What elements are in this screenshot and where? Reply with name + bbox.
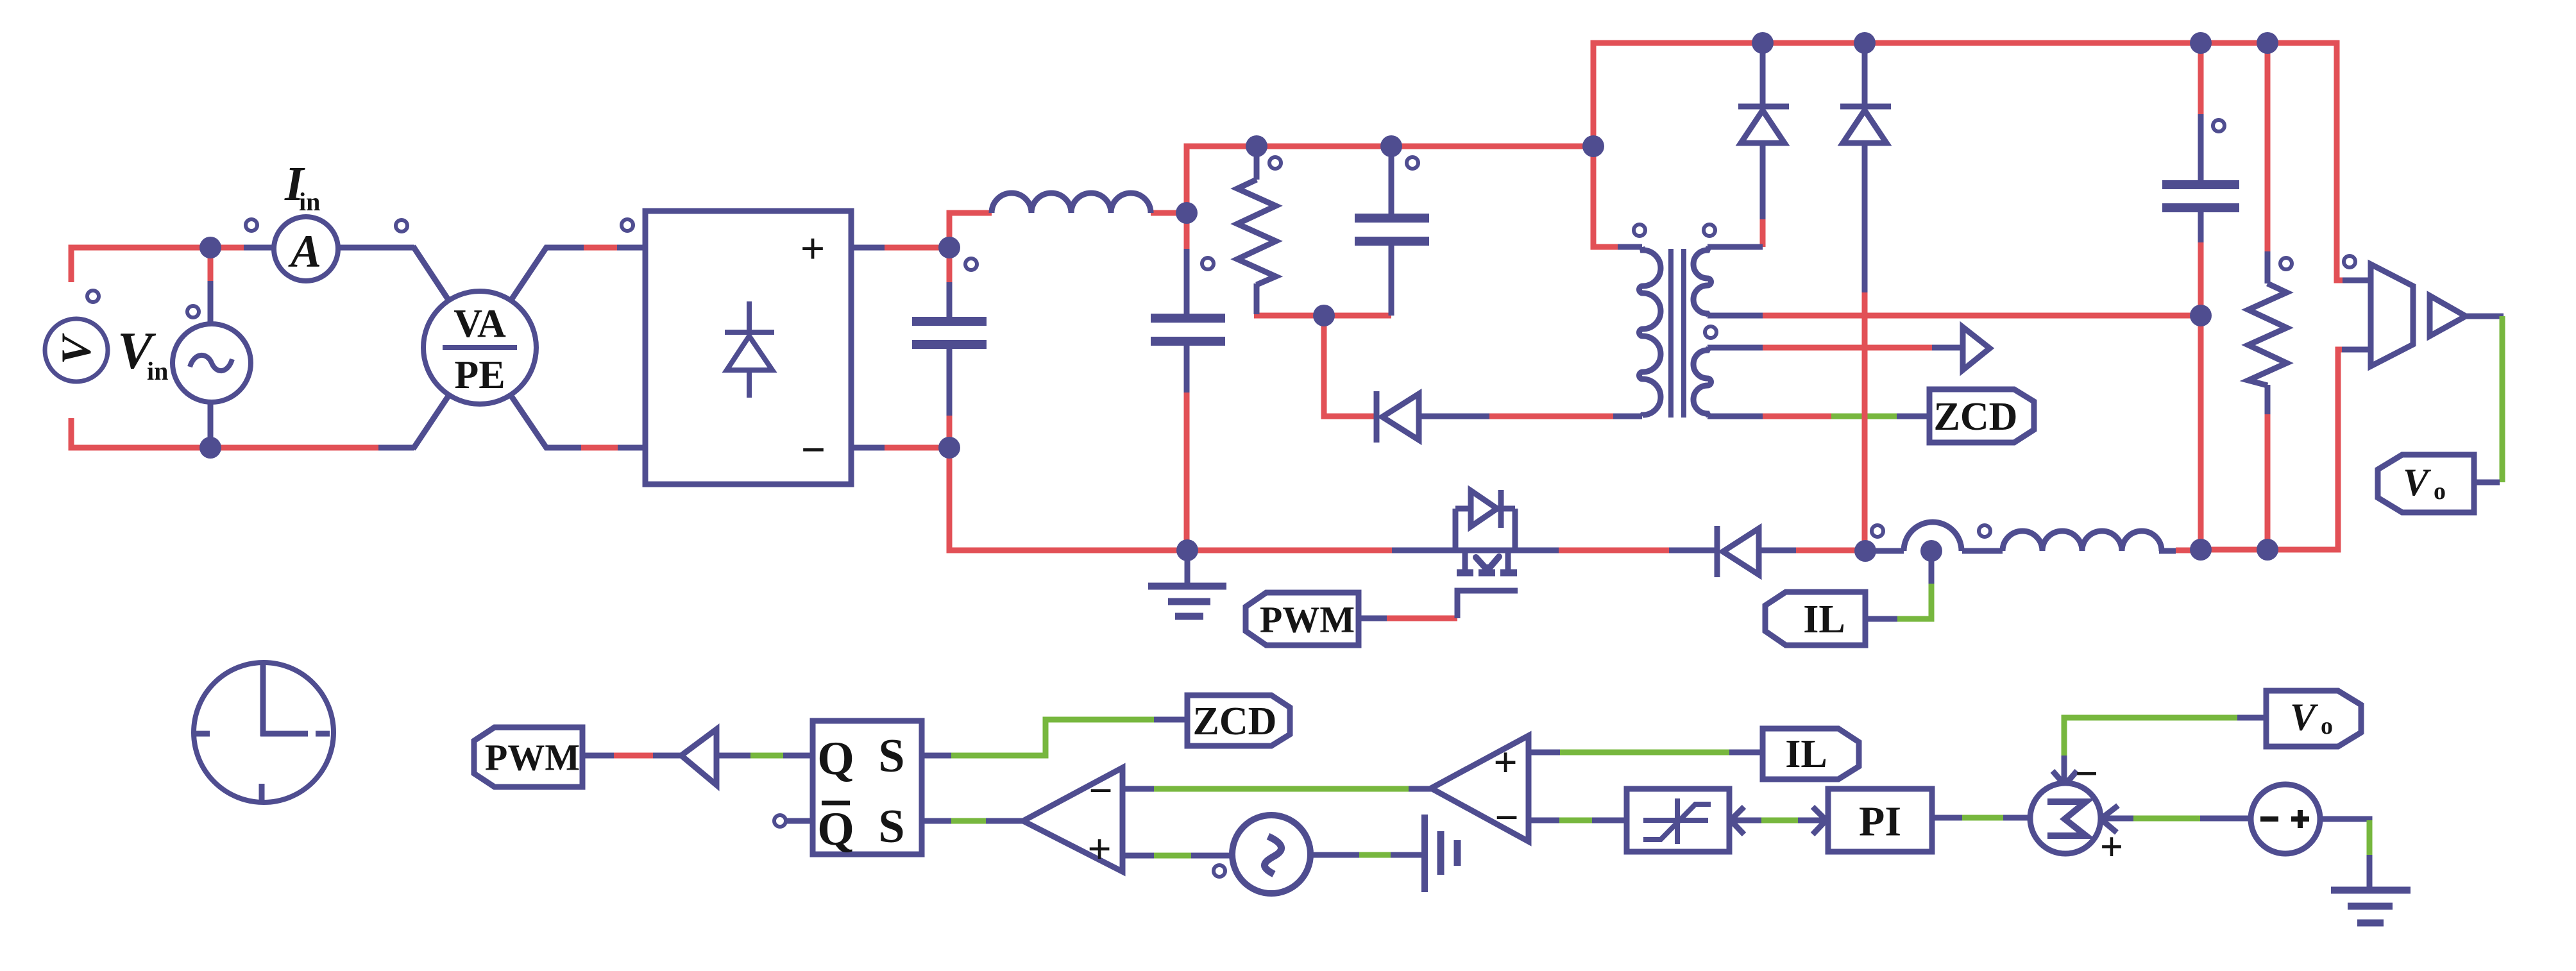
wire Rload top red (2265, 43, 2271, 251)
wire buffer2 in green (750, 753, 783, 759)
wire D4 anode red crossing overlay (1862, 407, 1868, 426)
wire wattmeter diagonal bottom-right (509, 393, 547, 449)
wire pwm out blue stub (582, 753, 614, 759)
capacitor C1 (912, 321, 987, 344)
wire primary feed red (1593, 146, 1618, 247)
buffer triangle Vo (2430, 296, 2466, 336)
wire ac source top stub blue (208, 281, 214, 326)
node junction dot bridge plus (938, 237, 960, 258)
wire Co bottom red (2198, 242, 2204, 316)
diode D2 (1717, 526, 1759, 577)
ground G2 (2331, 890, 2411, 923)
label box ZCD control (1187, 695, 1290, 746)
svg-text:o: o (2434, 478, 2446, 505)
wire D1 right blue (1419, 414, 1489, 419)
wire R2 bottom stub blue (1254, 283, 1260, 314)
node pin circle Co (2213, 120, 2224, 131)
dc source Vref (2251, 784, 2320, 854)
wire PI out blue stub (1932, 815, 1962, 821)
wire FF S top blue stub (922, 753, 951, 759)
wire CMP2 plus blue stub (1529, 750, 1560, 756)
diode D3 (1738, 106, 1789, 143)
resistor R2 (1237, 180, 1276, 285)
current sensor ISEN (1904, 522, 1962, 562)
node junction dot snubber right (1380, 135, 1402, 157)
node pin circle primary (1634, 224, 1645, 236)
wire D3 cathode blue (1760, 43, 1766, 106)
node junction dot top rail D4 (1854, 32, 1876, 54)
wattmeter VA/PE (423, 291, 536, 404)
svg-text:in: in (147, 357, 168, 385)
arrowhead into summer right (2101, 806, 2118, 832)
wire D1 left red elbow (1324, 316, 1377, 416)
wire ammeter left blue (244, 245, 275, 251)
transformer T1 core (1671, 249, 1684, 418)
wire Vo top box pin blue (2474, 480, 2500, 485)
svg-text:V: V (2290, 696, 2319, 738)
voltmeter V (45, 319, 108, 382)
wire wattmeter to bridge bottom red (581, 445, 618, 451)
wire CMP2 out blue stub (1409, 786, 1432, 792)
node junction dot snubber left (1246, 135, 1267, 157)
wire wattmeter to bridge top blue (545, 245, 584, 251)
wire Vo top green (2500, 316, 2505, 482)
node pin circle sensor right (1979, 525, 1990, 537)
node junction dot top rail D3 (1752, 32, 1774, 54)
clock symbol (194, 663, 334, 802)
svg-text:PE: PE (454, 353, 505, 397)
node pin circle sensor left (1872, 525, 1883, 537)
node pin circle carrier (1214, 865, 1225, 877)
wire ac source top stub red (208, 248, 214, 281)
transformer T1 primary winding (1640, 247, 1661, 416)
node pin circle Qbar (774, 815, 786, 827)
wire bottom rail mid red (1187, 548, 1392, 553)
wire D1 to primary red (1489, 414, 1613, 419)
wire wattmeter diagonal top-left (413, 246, 450, 303)
transformer T1 secondary winding top (1693, 247, 1711, 316)
node junction dot top input (199, 237, 221, 258)
wire L2 right red (2176, 548, 2201, 553)
wire primary top blue (1618, 244, 1642, 250)
wire C1 bottom stub blue (947, 346, 953, 416)
wire C3 bottom stub blue (1389, 244, 1394, 316)
node junction dot primary feed (1582, 135, 1604, 157)
wire CMP1 plus blue stub (1123, 853, 1154, 859)
wire bottom rail mid blue (1392, 548, 1559, 553)
PI block (1828, 789, 1932, 852)
wire secondary2 bottom blue (1707, 414, 1763, 419)
svg-text:+: + (2100, 824, 2123, 870)
wire CMP1 plus green (1154, 853, 1191, 859)
wire buffer1 out blue (2466, 314, 2504, 319)
resistor Rload (2248, 283, 2287, 385)
node junction dot rail Rload bottom (2257, 539, 2278, 561)
wire D3 anode blue (1760, 143, 1766, 219)
svg-text:S: S (878, 730, 904, 782)
wire C2 bottom stub red (1184, 393, 1190, 550)
inductor L1 (992, 193, 1151, 213)
wire D4 anode blue (1862, 143, 1868, 292)
wire buffer2 in blue (716, 753, 750, 759)
wire summer right blue (2099, 816, 2133, 822)
arrowhead into limiter (1731, 807, 1744, 834)
ammeter A (274, 217, 338, 281)
node pin circle ammeter left (246, 219, 257, 231)
wire summer right blue2 (2200, 816, 2251, 822)
buffer triangle control (681, 729, 716, 785)
transformer T1 secondary winding bottom (1693, 348, 1711, 416)
wire Rload bottom red (2265, 414, 2271, 550)
bridge rectifier BD1 (645, 211, 851, 484)
wire zcd red (1763, 414, 1831, 419)
svg-text:PWM: PWM (1260, 599, 1355, 641)
svg-text:−: − (801, 425, 826, 474)
wire limiter to PI blue2 (1798, 818, 1825, 823)
svg-text:V: V (2403, 461, 2432, 503)
wire FF Qbar stub blue (786, 818, 813, 824)
wire D4 cathode blue (1862, 43, 1868, 106)
wire bridge plus out red (885, 245, 949, 251)
wire source bottom rail blue (378, 445, 414, 451)
wire ZCD ctl blue stub (1154, 717, 1189, 723)
comparator CMP1 (1023, 768, 1123, 873)
wire carrier right green (1359, 852, 1391, 858)
wire ammeter right blue (338, 245, 414, 251)
svg-text:IL: IL (1803, 598, 1845, 641)
node pin circle secondary2 (1705, 326, 1716, 338)
wire ammeter left red (210, 245, 244, 251)
svg-text:ZCD: ZCD (1193, 700, 1277, 743)
wire Vo fb blue stub (2237, 715, 2267, 721)
wire source bottom rail red (210, 445, 378, 451)
wire ac source bottom stub blue (208, 401, 214, 448)
svg-text:in: in (299, 187, 320, 216)
capacitor C2 (1151, 318, 1225, 341)
wire wattmeter to bridge bottom blue2 (618, 445, 648, 451)
wire PI out green (1962, 815, 2003, 821)
wire C1 top stub red (947, 248, 953, 282)
ac source Vin (173, 324, 251, 402)
wire bottom rail left red (949, 448, 1187, 550)
wire secondary1 output red (1763, 313, 2201, 319)
wire carrier right blue (1309, 852, 1359, 858)
wire wattmeter diagonal top-right (509, 246, 547, 303)
wire output bottom rail red (2201, 350, 2371, 550)
wire buffer2 in blue2 (783, 753, 813, 759)
wire primary bottom blue (1613, 414, 1642, 419)
wire mosfet to D2 red (1559, 548, 1669, 553)
summer sigma circle (2030, 783, 2101, 854)
arrowhead into PI (1813, 807, 1826, 834)
wire snubber top rail red elbow (1187, 146, 1593, 213)
wire CMP2 minus blue2 (1592, 818, 1627, 823)
node pin circle C2 (1202, 258, 1214, 269)
node junction dot sec1 Co (2190, 305, 2212, 326)
wire limiter to PI blue (1731, 818, 1761, 823)
wire CMP2 plus green (1560, 750, 1729, 756)
wire input bottom red elbow (71, 418, 216, 448)
label box Vo top (2378, 455, 2474, 512)
node junction dot top rail Co (2190, 32, 2212, 54)
wire CMP2 out green (1154, 786, 1409, 792)
wire summer right green (2133, 816, 2200, 822)
node junction dot rail sensor (1854, 540, 1876, 562)
svg-text:A: A (288, 226, 321, 277)
wire D2 to sensor red (1796, 548, 1865, 553)
wire IL top pin blue (1865, 616, 1897, 622)
wire input top red elbow (71, 248, 216, 282)
node junction dot bottom input (199, 437, 221, 459)
arrowhead into summer top (2053, 756, 2077, 785)
ground right-pointing control (1425, 815, 1457, 892)
wire pwm out blue (653, 753, 682, 759)
wire C1 bottom stub red (947, 416, 953, 448)
wire top rail red (1593, 43, 2371, 280)
mosfet Q1 body (1455, 490, 1517, 573)
wire zcd blue (1897, 414, 1929, 419)
inductor L2 (2003, 531, 2162, 551)
svg-text:S: S (878, 800, 904, 853)
capacitor C3 (1355, 218, 1429, 241)
node pin circle sensor Vo (2344, 256, 2355, 267)
wire Rload top blue (2265, 251, 2271, 283)
wire wattmeter to bridge top blue2 (617, 245, 648, 251)
svg-text:o: o (2321, 713, 2333, 739)
wire R2 top stub blue (1254, 146, 1260, 180)
label box ZCD top (1929, 389, 2034, 443)
wire L1 right red (1151, 210, 1187, 216)
wire secondary2 mid blue (1932, 345, 1962, 351)
limiter block (1627, 789, 1729, 852)
node junction dot snubber bottom (1313, 305, 1335, 326)
wire Co top red (2198, 43, 2204, 114)
wire D3 anode red (1760, 219, 1766, 247)
wire sensor left blue (1865, 548, 1904, 554)
wire FF S bottom blue stub (922, 818, 951, 824)
wire sensor right blue (1962, 548, 2003, 554)
node pin circle R2 (1269, 157, 1281, 169)
label box IL control (1763, 729, 1859, 779)
svg-text:+: + (801, 224, 826, 273)
wire D2 left blue (1669, 548, 1717, 553)
wire L2 right blue (2159, 548, 2176, 554)
node junction dot L1 out (1176, 202, 1198, 224)
wire C3 top stub blue (1389, 146, 1394, 215)
label box IL top (1765, 592, 1865, 645)
wire Vref down green (2367, 820, 2373, 855)
wire PI out blue2 (2003, 815, 2031, 821)
wire D4 anode red (1862, 292, 1868, 550)
label box PWM control (474, 727, 582, 787)
wire secondary1 top blue (1707, 244, 1763, 250)
wire IL top green elbow (1897, 582, 1931, 619)
wire trapezoid bottom pin blue (2342, 347, 2371, 353)
signal arrow secondary2 (1963, 327, 1990, 370)
wire bridge minus out blue (851, 445, 885, 451)
wire C2 top stub red (1184, 213, 1190, 249)
comparator CMP2 (1431, 736, 1529, 841)
label box PWM top (1246, 593, 1359, 645)
wire Co top blue (2198, 114, 2204, 182)
svg-text:+: + (1493, 739, 1518, 786)
svg-text:−: − (1089, 768, 1113, 815)
svg-text:V: V (53, 333, 100, 364)
wire secondary1 bottom blue (1707, 313, 1763, 319)
wire secondary2 top blue (1707, 345, 1763, 351)
wire bridge plus out blue (851, 245, 885, 251)
ground G1 (1148, 550, 1226, 616)
node pin circle Rload (2280, 258, 2292, 269)
wire Co to rail red (2198, 316, 2204, 550)
node pin circle ac source (187, 306, 199, 317)
svg-text:PI: PI (1859, 798, 1901, 845)
wire Vref right blue (2320, 819, 2369, 822)
node pin circle secondary1 (1704, 224, 1715, 236)
wire trapezoid top pin blue (2343, 278, 2371, 283)
node pin circle bridge input (622, 219, 633, 231)
svg-text:Q: Q (817, 803, 854, 856)
diode D1 (1377, 391, 1419, 443)
wire gate elbow blue (1457, 591, 1518, 618)
node junction dot ground rail (1176, 539, 1198, 561)
wire CMP1 minus blue stub (1123, 786, 1154, 792)
capacitor Co (2162, 185, 2239, 208)
wire C2 top stub blue (1184, 249, 1190, 316)
svg-text:IL: IL (1785, 732, 1827, 776)
svg-text:VA: VA (453, 302, 506, 346)
wire carrier right blue2 (1391, 852, 1425, 858)
node junction dot bridge minus (938, 437, 960, 459)
wire zcd green (1831, 414, 1897, 419)
wire wattmeter to bridge top red (584, 245, 617, 251)
wire CMP1 plus blue2 (1191, 853, 1234, 859)
wire CMP2 minus blue stub (1529, 818, 1559, 823)
svg-text:+: + (1087, 826, 1112, 873)
wire Co bottom blue (2198, 210, 2204, 242)
node pin circle ammeter right (396, 220, 407, 232)
node pin circle C3 (1407, 157, 1418, 169)
node pin circle C1 (965, 258, 977, 270)
wire FF S bottom green (951, 818, 986, 824)
svg-text:−: − (2075, 751, 2098, 797)
wire gate pwm blue stub (1359, 616, 1387, 621)
wire bridge minus out red (885, 445, 949, 451)
svg-text:−: − (1495, 795, 1519, 841)
node junction dot rail Co bottom (2190, 539, 2212, 561)
flipflop SR box (813, 721, 922, 856)
wire wattmeter to bridge bottom blue (545, 445, 581, 451)
wire CMP2 plus blue2 (1729, 750, 1764, 756)
node pin circle voltmeter (87, 291, 99, 302)
wire Rload bottom blue (2265, 385, 2271, 414)
wire Vref down blue (2367, 855, 2373, 890)
svg-text:ZCD: ZCD (1934, 395, 2018, 439)
wire wattmeter diagonal bottom-left (413, 393, 450, 449)
voltage sensor VSEN trapezoid (2371, 264, 2413, 366)
wire limiter to PI green (1761, 818, 1798, 823)
svg-text:Q: Q (817, 732, 854, 785)
label box Vo control (2266, 691, 2361, 747)
wire D2 right blue (1759, 548, 1796, 553)
wire FF S top green elbow (951, 720, 1154, 756)
wire FF S bottom blue2 (986, 818, 1024, 824)
wire C1 top stub blue (947, 282, 953, 318)
wire Vo fb green elbow (2064, 718, 2237, 757)
wire gate pwm red (1387, 616, 1457, 621)
node junction dot top rail Rload (2257, 32, 2278, 54)
wire sensor tap blue (1929, 551, 1935, 584)
svg-text:PWM: PWM (485, 737, 580, 779)
wire L1 left elbow red (949, 213, 992, 248)
wire CMP2 minus green (1559, 818, 1592, 823)
wire C2 bottom stub blue (1184, 344, 1190, 393)
sawtooth source carrier (1232, 815, 1310, 893)
wire pwm out red (614, 753, 653, 759)
wire secondary2 mid red (1763, 345, 1932, 351)
diode D4 (1840, 106, 1891, 143)
wire snubber bottom red (1254, 313, 1391, 319)
